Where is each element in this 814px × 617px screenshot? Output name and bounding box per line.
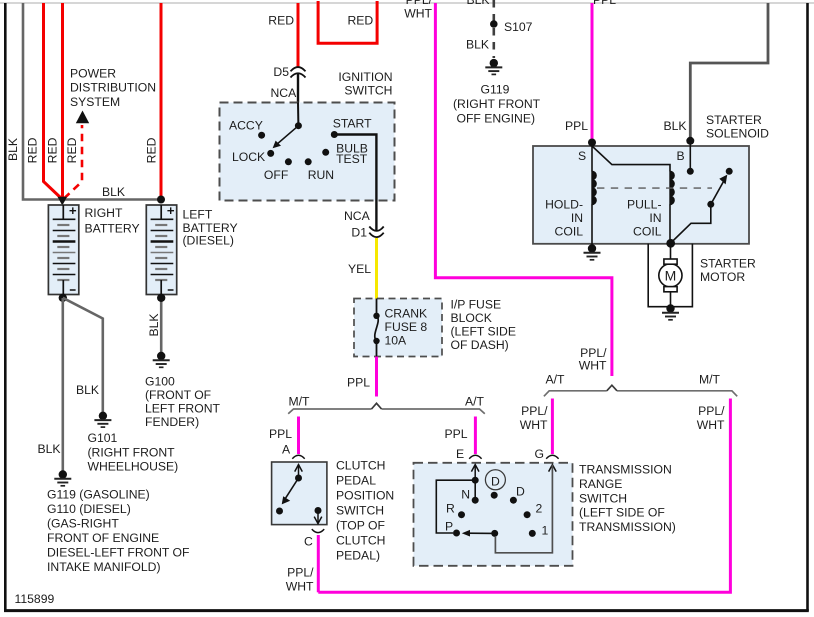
ground G101	[94, 412, 111, 428]
svg-text:D: D	[516, 485, 525, 499]
svg-text:BLK: BLK	[102, 185, 125, 199]
svg-text:FENDER): FENDER)	[145, 415, 199, 429]
svg-text:115899: 115899	[15, 592, 55, 606]
svg-text:RED: RED	[65, 137, 79, 163]
svg-text:OF DASH): OF DASH)	[451, 338, 509, 352]
svg-text:POWER: POWER	[70, 67, 116, 81]
connector D5	[291, 67, 306, 77]
svg-text:PPL: PPL	[269, 427, 292, 441]
svg-text:SOLENOID: SOLENOID	[706, 127, 769, 141]
svg-text:IN: IN	[649, 211, 661, 225]
contact RUN	[305, 158, 312, 165]
svg-text:BLK: BLK	[76, 383, 99, 397]
svg-text:STARTER: STARTER	[700, 257, 756, 271]
svg-text:PPL: PPL	[444, 427, 467, 441]
svg-text:RIGHT: RIGHT	[85, 206, 123, 220]
arrow to power distribution system	[76, 111, 89, 124]
svg-text:RED: RED	[145, 137, 159, 163]
ground below hold-in coil	[584, 244, 601, 259]
wire PPL/WHT M/T loop (right side and bottom)	[318, 399, 730, 593]
svg-text:WHT: WHT	[404, 7, 432, 21]
svg-text:G100: G100	[145, 375, 175, 389]
wire BLK right battery to G101	[63, 298, 103, 412]
trans switch E input arrow	[471, 464, 479, 481]
wire RED feed 1	[44, 3, 63, 199]
svg-text:PEDAL): PEDAL)	[336, 549, 380, 563]
svg-text:PPL/: PPL/	[521, 404, 548, 418]
svg-text:MOTOR: MOTOR	[700, 270, 745, 284]
contact 2	[524, 511, 531, 518]
svg-text:BLK: BLK	[147, 313, 161, 336]
svg-text:D1: D1	[351, 226, 367, 240]
svg-text:M: M	[665, 268, 677, 284]
ignition switch arm (pointing to LOCK)	[273, 126, 299, 149]
trans switch wiper arrow (pointing to P)	[462, 530, 495, 537]
contact OFF	[285, 158, 292, 165]
svg-text:G110 (DIESEL): G110 (DIESEL)	[47, 502, 131, 516]
svg-text:RED: RED	[348, 14, 374, 28]
wire PPL/WHT to transmission switch G	[551, 399, 554, 455]
contact D	[510, 497, 517, 504]
contact clutch switch output	[315, 507, 322, 514]
svg-text:D5: D5	[273, 65, 289, 79]
contact R	[458, 511, 465, 518]
hold-in coil	[592, 146, 596, 248]
svg-text:(DIESEL): (DIESEL)	[183, 234, 234, 248]
connector D1	[369, 227, 383, 238]
svg-text:TRANSMISSION: TRANSMISSION	[579, 463, 672, 477]
svg-text:N: N	[461, 488, 470, 502]
ground G119 (right front off engine)	[485, 59, 502, 75]
svg-text:G101: G101	[88, 431, 118, 445]
wire RED feed 2	[61, 3, 64, 198]
wire arm pivot to motor junction	[671, 204, 711, 243]
svg-text:PPL/: PPL/	[287, 566, 314, 580]
svg-text:PULL-: PULL-	[627, 198, 662, 212]
ground starter motor	[662, 313, 679, 320]
svg-text:(RIGHT FRONT: (RIGHT FRONT	[88, 446, 176, 460]
node left battery negative	[157, 294, 165, 302]
svg-text:INTAKE MANIFOLD): INTAKE MANIFOLD)	[47, 560, 161, 574]
connector bump terminal C	[312, 529, 324, 533]
contact START	[331, 131, 338, 138]
ignition switch box	[220, 103, 395, 201]
wire PPL/WHT from solenoid S branch	[435, 3, 612, 376]
svg-text:DIESEL-LEFT FRONT OF: DIESEL-LEFT FRONT OF	[47, 546, 189, 560]
svg-text:S107: S107	[504, 20, 533, 34]
connector bump terminal E	[469, 455, 481, 459]
wire PPL/WHT from clutch C	[317, 535, 320, 592]
node trans wiper pivot	[491, 530, 498, 537]
node clutch switch common	[295, 475, 302, 482]
svg-text:SYSTEM: SYSTEM	[70, 95, 120, 109]
svg-text:PPL: PPL	[347, 376, 370, 390]
clutch switch input arrow	[295, 464, 303, 478]
wire G to wiper	[495, 465, 552, 553]
svg-text:10A: 10A	[385, 334, 408, 348]
ground G100	[153, 352, 170, 368]
contact N	[472, 497, 479, 504]
wire E to N contact	[474, 480, 476, 500]
wire PPL from crank fuse	[375, 357, 378, 397]
contact D overdrive	[491, 492, 498, 499]
svg-text:RED: RED	[46, 137, 60, 163]
node terminal S	[588, 139, 596, 147]
svg-text:BLOCK: BLOCK	[451, 311, 492, 325]
svg-text:PPL: PPL	[565, 119, 588, 133]
transmission range switch box	[414, 463, 573, 566]
svg-text:BLK: BLK	[6, 138, 20, 161]
wire YEL to crank fuse	[375, 238, 378, 299]
svg-text:RUN: RUN	[308, 168, 334, 182]
contact B fixed	[687, 168, 694, 175]
svg-text:A: A	[282, 443, 291, 457]
svg-text:FUSE 8: FUSE 8	[385, 320, 428, 334]
wire B to fixed contact	[689, 141, 691, 172]
wire PPL to transmission switch E	[474, 417, 477, 455]
node ignition switch pivot	[295, 122, 302, 129]
svg-text:COIL: COIL	[633, 225, 662, 239]
wire BLK to solenoid B	[690, 3, 768, 141]
svg-text:C: C	[304, 535, 313, 549]
svg-text:LEFT FRONT: LEFT FRONT	[145, 402, 220, 416]
svg-text:I/P FUSE: I/P FUSE	[451, 298, 502, 312]
wire RED to ignition switch	[297, 3, 300, 67]
wire RED dashed to power distribution system	[64, 125, 82, 199]
starter solenoid box	[533, 146, 749, 244]
svg-text:SWITCH: SWITCH	[579, 491, 627, 505]
svg-text:DISTRIBUTION: DISTRIBUTION	[70, 81, 156, 95]
wire BLK left battery to G100	[160, 298, 163, 352]
svg-text:WHEELHOUSE): WHEELHOUSE)	[88, 460, 179, 474]
svg-text:BLK: BLK	[38, 442, 61, 456]
svg-text:STARTER: STARTER	[706, 113, 762, 127]
svg-text:G119 (GASOLINE): G119 (GASOLINE)	[47, 488, 150, 502]
svg-text:ACCY: ACCY	[229, 119, 263, 133]
clutch pedal position switch box	[272, 462, 327, 525]
svg-text:CLUTCH: CLUTCH	[336, 459, 385, 473]
node right battery negative	[59, 294, 67, 302]
svg-text:HOLD-: HOLD-	[545, 198, 583, 212]
svg-text:LOCK: LOCK	[232, 150, 265, 164]
svg-text:IN: IN	[571, 211, 583, 225]
svg-text:WHT: WHT	[579, 359, 607, 373]
battery RIGHT BATTERY	[48, 205, 78, 295]
wire NCA ignition feed	[297, 74, 299, 103]
node E junction	[472, 477, 479, 484]
linkage dashed line	[597, 187, 712, 189]
svg-text:(LEFT SIDE: (LEFT SIDE	[451, 325, 516, 339]
svg-text:RED: RED	[26, 137, 40, 163]
svg-text:NCA: NCA	[271, 86, 298, 100]
contact motor-side fixed	[726, 168, 733, 175]
pull-in coil	[670, 171, 674, 243]
svg-text:G119: G119	[481, 83, 510, 97]
wire PPL to solenoid S	[591, 3, 594, 142]
svg-text:M/T: M/T	[289, 395, 311, 409]
wire E to P contact	[436, 480, 475, 533]
solenoid switch arm	[711, 175, 728, 205]
svg-text:RED: RED	[268, 14, 294, 28]
svg-text:M/T: M/T	[699, 373, 721, 387]
ground G119/G110	[54, 470, 71, 486]
node motor feed junction	[666, 239, 675, 248]
circled D indicator	[485, 470, 505, 490]
svg-text:PEDAL: PEDAL	[336, 474, 376, 488]
svg-text:POSITION: POSITION	[336, 489, 394, 503]
wire PPL to clutch switch A	[297, 417, 300, 455]
contact ACCY	[258, 132, 265, 139]
wire BLK dashed to S107	[492, 0, 495, 58]
svg-text:E: E	[456, 447, 464, 461]
clutch switch arm	[282, 478, 299, 504]
svg-text:WHT: WHT	[697, 418, 725, 432]
svg-text:(TOP OF: (TOP OF	[336, 519, 385, 533]
trans switch G input arrow	[549, 465, 557, 472]
splice S107	[490, 20, 498, 28]
svg-text:S: S	[578, 149, 586, 163]
brace M/T / A/T split (center)	[288, 409, 485, 414]
svg-text:START: START	[333, 117, 372, 131]
svg-text:A/T: A/T	[546, 373, 566, 387]
svg-text:(FRONT OF: (FRONT OF	[145, 388, 211, 402]
svg-text:BLK: BLK	[467, 0, 490, 7]
svg-text:P: P	[445, 520, 453, 534]
wire START output	[334, 135, 376, 231]
svg-text:SWITCH: SWITCH	[344, 84, 392, 98]
wire NCA ignition feed (inside box)	[297, 103, 299, 126]
svg-text:(LEFT SIDE OF: (LEFT SIDE OF	[579, 506, 665, 520]
connector bump terminal G	[546, 455, 558, 459]
node left battery positive junction	[157, 196, 165, 204]
svg-text:WHT: WHT	[520, 418, 548, 432]
svg-text:TEST: TEST	[336, 152, 368, 166]
svg-text:G: G	[535, 447, 544, 461]
svg-text:WHT: WHT	[286, 580, 314, 594]
connector bump terminal A	[292, 455, 304, 459]
contact LOCK	[267, 150, 274, 157]
svg-text:(GAS-RIGHT: (GAS-RIGHT	[47, 517, 119, 531]
starter motor frame wires	[648, 244, 692, 307]
brace A/T / M/T split (right)	[544, 391, 737, 397]
svg-text:R: R	[446, 502, 455, 516]
svg-text:COIL: COIL	[555, 225, 584, 239]
svg-text:NCA: NCA	[344, 209, 371, 223]
wire BLK right battery to G119	[61, 298, 64, 471]
svg-text:PPL/: PPL/	[698, 404, 725, 418]
svg-text:D: D	[491, 474, 500, 488]
svg-text:YEL: YEL	[348, 262, 371, 276]
contact BULB TEST	[322, 149, 329, 156]
I/P fuse block box	[354, 299, 442, 357]
svg-text:CLUTCH: CLUTCH	[336, 534, 385, 548]
contact P	[453, 530, 460, 537]
svg-text:IGNITION: IGNITION	[338, 70, 392, 84]
svg-text:BLK: BLK	[466, 38, 489, 52]
svg-text:LEFT: LEFT	[183, 208, 213, 222]
svg-text:TRANSMISSION): TRANSMISSION)	[579, 520, 676, 534]
contact 1	[529, 530, 536, 537]
svg-text:OFF ENGINE): OFF ENGINE)	[457, 112, 536, 126]
clutch switch output arrow	[314, 511, 322, 524]
contact clutch switch lower	[276, 508, 283, 515]
svg-text:CRANK: CRANK	[385, 307, 428, 321]
svg-text:1: 1	[542, 524, 549, 538]
fuse CRANK FUSE 8 10A	[373, 299, 379, 357]
node solenoid arm pivot	[707, 201, 714, 208]
wire RED feed to left battery	[160, 3, 163, 198]
svg-text:PPL: PPL	[593, 0, 616, 7]
node motor ground junction	[666, 304, 674, 312]
wire S to pull-in coil	[592, 146, 670, 171]
battery LEFT BATTERY (DIESEL)	[146, 205, 176, 295]
svg-text:(RIGHT FRONT: (RIGHT FRONT	[453, 97, 541, 111]
motor M	[659, 243, 682, 306]
svg-text:A/T: A/T	[465, 395, 485, 409]
wire RED loop (accessory feed)	[318, 1, 377, 43]
arrowhead into right battery positive	[58, 197, 68, 206]
svg-text:BATTERY: BATTERY	[85, 222, 140, 236]
wire BLK battery ground feed (top left)	[23, 3, 159, 200]
svg-text:B: B	[677, 149, 685, 163]
svg-text:SWITCH: SWITCH	[336, 504, 384, 518]
node terminal B	[686, 137, 694, 145]
svg-text:2: 2	[536, 502, 543, 516]
svg-text:OFF: OFF	[264, 168, 288, 182]
svg-text:RANGE: RANGE	[579, 477, 622, 491]
svg-text:BLK: BLK	[663, 119, 686, 133]
svg-text:FRONT OF ENGINE: FRONT OF ENGINE	[47, 531, 159, 545]
